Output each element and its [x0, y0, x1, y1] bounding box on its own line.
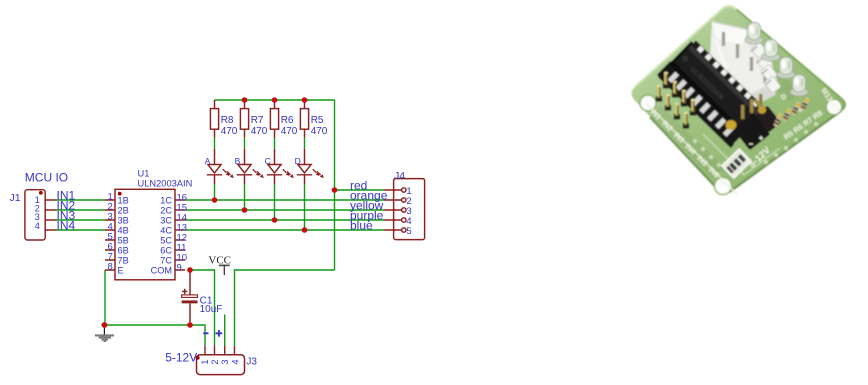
U1 left pin names — [118, 196, 129, 276]
svg-text:4C: 4C — [160, 226, 172, 236]
junction C1 ground — [187, 322, 193, 328]
PCB board — [632, 6, 846, 192]
connector J4 — [384, 179, 425, 240]
svg-text:IN4: IN4 — [57, 218, 76, 232]
svg-text:2: 2 — [210, 359, 220, 364]
connector J3 — [197, 346, 245, 375]
wire R6 to LED C — [274, 138, 276, 149]
svg-text:1: 1 — [200, 359, 210, 364]
resistors R5-R8 — [773, 113, 783, 128]
svg-text:5C: 5C — [160, 236, 172, 246]
svg-text:R7: R7 — [251, 115, 264, 126]
clear LEDs — [745, 23, 763, 45]
svg-text:2C: 2C — [160, 206, 172, 216]
wire R7 to LED B — [244, 138, 246, 149]
wire LED A cathode to orange — [214, 184, 216, 200]
wire orange U1.16 to J4.2 — [185, 199, 384, 201]
wire VCC top rail — [215, 99, 335, 101]
wire COM to J3.2 — [190, 270, 215, 346]
white JST connector — [710, 21, 781, 114]
svg-text:7C: 7C — [160, 256, 172, 266]
svg-text:J3: J3 — [246, 356, 257, 367]
svg-text:470: 470 — [311, 126, 328, 137]
svg-text:E: E — [118, 266, 124, 276]
wire IN4 J1.4 to U1.4 — [57, 229, 106, 231]
svg-text:5: 5 — [406, 226, 411, 237]
DIP-16 black chip on socket — [656, 38, 767, 148]
svg-text:A: A — [205, 156, 211, 166]
LED A — [207, 149, 231, 185]
IC U1 ULN2003AIN body — [105, 189, 185, 279]
resistor R8 — [210, 100, 218, 138]
svg-text:D: D — [295, 156, 301, 166]
wire LED D cathode to blue — [304, 184, 306, 230]
junction E ground — [102, 322, 108, 328]
wire ground node to J3.1 — [105, 325, 205, 346]
junction LED A orange — [212, 197, 218, 203]
svg-text:6C: 6C — [160, 246, 172, 256]
wire VCC vertical right — [334, 100, 336, 270]
wire red node to J4.1 — [335, 189, 385, 191]
connector J1 MCU IO — [25, 190, 57, 240]
svg-text:blue: blue — [350, 218, 373, 232]
svg-text:8: 8 — [108, 261, 113, 272]
LED D — [297, 149, 321, 185]
svg-text:2B: 2B — [118, 206, 129, 216]
svg-text:4: 4 — [35, 221, 40, 231]
svg-text:1C: 1C — [160, 196, 172, 206]
wire yellow U1.15 to J4.3 — [185, 209, 384, 211]
wire VCC rail to J3.4 — [235, 270, 335, 346]
jumper block and power header — [734, 94, 781, 150]
wire blue U1.13 to J4.5 — [185, 229, 384, 231]
junction VCC rail R7 — [242, 97, 248, 103]
svg-text:R8: R8 — [221, 115, 234, 126]
sticker label — [722, 149, 751, 178]
wire U1.E down to ground node — [104, 270, 106, 325]
J3 pin numbers rotated — [200, 359, 240, 364]
svg-text:5-12V: 5-12V — [165, 351, 197, 365]
power symbol VCC — [208, 255, 231, 276]
resistor R6 — [270, 100, 278, 138]
silk line along header — [646, 103, 739, 196]
svg-text:3B: 3B — [118, 216, 129, 226]
label plus — [216, 330, 223, 337]
J1 pin1 marker — [39, 191, 43, 195]
svg-text:J4: J4 — [394, 170, 405, 182]
svg-text:VCC: VCC — [208, 255, 231, 267]
svg-text:4: 4 — [230, 359, 240, 364]
junction LED C purple — [272, 217, 278, 223]
wire R8 to LED A — [214, 138, 216, 149]
junction VCC rail R6 — [272, 97, 278, 103]
wire IN2 J1.2 to U1.2 — [57, 209, 106, 211]
junction VCC rail R5 — [302, 97, 308, 103]
svg-text:MCU IO: MCU IO — [25, 171, 68, 185]
svg-text:470: 470 — [221, 126, 238, 137]
wire LED B cathode to yellow — [244, 184, 246, 210]
svg-text:3: 3 — [220, 359, 230, 364]
junction COM node — [187, 267, 193, 273]
resistor R7 — [240, 100, 248, 138]
svg-text:B: B — [235, 156, 241, 166]
U1 right pin numbers 16-9 — [177, 193, 188, 274]
svg-text:3C: 3C — [160, 216, 172, 226]
svg-text:J1: J1 — [10, 192, 21, 204]
junction LED B yellow — [242, 207, 248, 213]
photo of ULN2003 stepper driver board module — [632, 6, 846, 196]
U1 pin1 marker — [118, 192, 122, 196]
mounting hole right — [826, 99, 842, 115]
svg-text:6B: 6B — [118, 246, 129, 256]
mounting hole bottom — [714, 177, 731, 194]
svg-text:U1: U1 — [138, 169, 150, 179]
LED B — [237, 149, 261, 185]
wire IN1 J1.1 to U1.1 — [57, 199, 106, 201]
gold header pins IN1-IN4 rows — [656, 72, 696, 129]
capacitor C1 — [182, 272, 198, 323]
svg-text:10uF: 10uF — [200, 304, 223, 315]
junction red node — [332, 187, 338, 193]
solder pads — [693, 56, 818, 167]
wire R5 to LED D — [304, 138, 306, 149]
mounting hole left — [640, 95, 656, 111]
wire stub J3.3 — [224, 315, 226, 346]
svg-text:R5: R5 — [311, 115, 324, 126]
J4 pin numbers — [406, 186, 411, 237]
svg-text:9: 9 — [177, 263, 182, 274]
wire COM to C1 top — [189, 270, 191, 273]
svg-text:7B: 7B — [118, 256, 129, 266]
label minus — [203, 332, 208, 334]
J3 pin1 marker — [196, 356, 200, 360]
silk labels IN1-IN7 — [649, 107, 733, 191]
svg-text:R6: R6 — [281, 115, 294, 126]
yellow disc capacitors — [726, 120, 737, 130]
svg-text:COM: COM — [151, 266, 172, 276]
wire purple U1.14 to J4.4 — [185, 219, 384, 221]
ground symbol — [95, 325, 114, 341]
svg-text:5B: 5B — [118, 236, 129, 246]
svg-text:1B: 1B — [118, 196, 129, 206]
wire LED C cathode to purple — [274, 184, 276, 220]
U1 left pin numbers 1-8 — [108, 191, 113, 272]
U1 right pin names — [151, 196, 173, 276]
wire IN3 J1.3 to U1.3 — [57, 219, 106, 221]
svg-text:470: 470 — [281, 126, 298, 137]
resistor R5 — [300, 100, 308, 138]
junction LED D blue — [302, 227, 308, 233]
svg-text:C: C — [265, 156, 271, 166]
svg-text:4B: 4B — [118, 226, 129, 236]
svg-text:470: 470 — [251, 126, 268, 137]
J1 pin numbers — [35, 195, 40, 231]
LED C — [267, 149, 291, 185]
svg-text:ULN2003AIN: ULN2003AIN — [138, 178, 193, 188]
wire C1 bottom to ground node — [189, 323, 191, 326]
